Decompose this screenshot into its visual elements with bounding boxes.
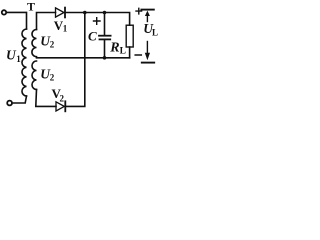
resistor RL box — [126, 25, 133, 47]
svg-text:1: 1 — [63, 24, 68, 34]
terminal: input top — [2, 10, 6, 14]
diode V2 — [56, 102, 64, 111]
transformer primary winding — [22, 29, 27, 96]
transformer secondary upper winding — [32, 30, 37, 57]
wire: top input to primary top — [6, 12, 26, 29]
terminal: input bottom — [7, 101, 12, 106]
svg-text:1: 1 — [16, 54, 21, 64]
diode V1 — [56, 8, 65, 17]
wire: primary bottom to input terminal — [12, 96, 26, 103]
UL down arrow — [146, 42, 148, 54]
label +: capacitor polarity — [94, 18, 101, 25]
label -: UL polarity bottom — [135, 54, 141, 56]
junction dot: capacitor bottom — [103, 56, 107, 60]
capacitor C stems — [104, 13, 106, 58]
svg-text:C: C — [88, 29, 97, 44]
label +: UL polarity top — [136, 8, 142, 14]
svg-text:2: 2 — [50, 40, 55, 50]
capacitor C plates — [99, 35, 111, 37]
wire: secondary bottom to V2 anode — [36, 90, 56, 107]
UL up arrow — [146, 14, 148, 22]
UL top reference bar — [141, 9, 153, 11]
transformer secondary lower winding — [32, 61, 36, 90]
wire: RL bottom — [129, 47, 131, 58]
svg-text:L: L — [120, 47, 126, 57]
svg-text:T: T — [27, 0, 35, 14]
svg-text:2: 2 — [60, 94, 65, 104]
wire: top rail to RL — [66, 13, 130, 26]
UL bottom reference bar — [142, 62, 154, 64]
wire: secondary top riser — [37, 13, 56, 30]
junction dot: capacitor top — [103, 11, 107, 15]
svg-text:R: R — [109, 41, 119, 56]
svg-text:2: 2 — [50, 73, 55, 83]
svg-text:L: L — [152, 28, 158, 38]
wire: center tap bottom rail — [37, 57, 130, 59]
junction dot: node A top rail / V2 riser — [83, 11, 87, 15]
wire: V2 cathode riser to top rail — [66, 13, 85, 107]
